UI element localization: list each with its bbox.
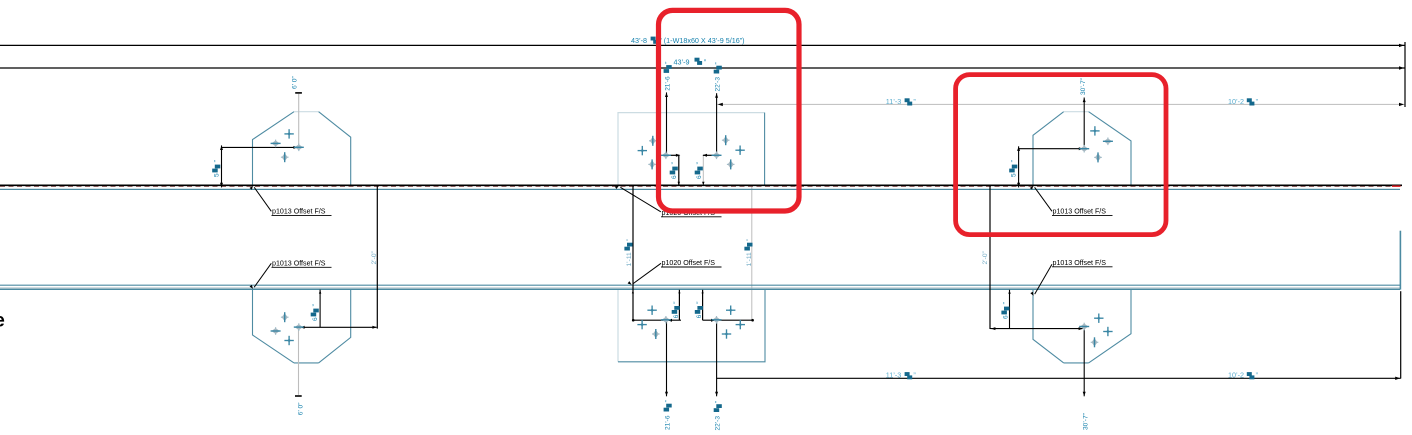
svg-text:43’-9: 43’-9 [674,57,690,66]
svg-text:p1013 Offset F/S: p1013 Offset F/S [1053,208,1107,216]
svg-text:11’-3: 11’-3 [886,371,901,380]
bolt group bottom-right plate [1079,323,1089,331]
lower member right end cap blue [1399,231,1401,290]
svg-text:6’ 0”: 6’ 0” [292,76,299,89]
leader p1013 bottom-left [254,263,271,287]
svg-text:21’-6: 21’-6 [665,415,672,430]
svg-text:p1013 Offset F/S: p1013 Offset F/S [1053,259,1107,267]
svg-text:1’-11: 1’-11 [746,252,753,267]
gray leader 6'-0 bottom-left [298,328,300,395]
svg-text:”: ” [213,160,220,162]
red markup rounded box middle [659,10,800,211]
dimension 6 5/8 bottom-left [319,290,321,328]
svg-text:5: 5 [213,173,220,177]
svg-text:22’-3: 22’-3 [715,77,722,92]
svg-text:”: ” [626,239,633,241]
leader p1020 bottom-middle [633,263,661,283]
plate p1013 top-right hexagonal outline [1033,112,1064,186]
vertical dim leader 21'-6 7/8 bottom [666,320,668,396]
svg-text:”: ” [696,302,703,304]
svg-text:30’-7”: 30’-7” [1083,413,1090,430]
second dimension line 43'-9 9/16 [0,67,1405,69]
gray extension top-middle right bracket [702,155,704,185]
top dimension line 43'-8 15/16 [0,44,1405,46]
svg-text:6: 6 [673,314,680,318]
svg-text:”: ” [1010,160,1017,162]
svg-text:”: ” [665,400,672,402]
svg-text:5: 5 [1010,173,1017,177]
svg-text:p1020 Offset F/S: p1020 Offset F/S [662,259,716,267]
vertical member line x=633 [632,186,634,321]
bracket 6 5/8 top-middle-right [703,154,716,156]
svg-text:”: ” [671,162,678,164]
svg-text:21’-6: 21’-6 [665,76,672,91]
tick at top of 6'-0 leader [295,92,302,94]
svg-text:6: 6 [312,317,319,321]
dimension 5 7/8 top-left [221,145,223,187]
bolt group bottom-middle-left [637,320,646,329]
svg-text:”: ” [312,304,319,306]
vertical dim leader 30'-7 bottom-right [1083,329,1085,396]
bracket 6 5/8 bottom-right [1009,290,1011,329]
svg-text:43’-8: 43’-8 [631,36,647,45]
bracket 6 5/8 bottom-middle-left [678,290,680,320]
lower member gray mid line [0,287,1400,289]
vertical member line x=990 [989,186,991,329]
bolt group top-middle-left [638,146,647,155]
gray dimension line top 11'-3 5/8 + 10'-2 5/8 [717,103,1406,105]
lower member top edge blue line 2 [0,288,1400,290]
vertical dim leader 30'-7 top-right [1083,98,1085,149]
red markup rounded box right [956,75,1166,235]
tick at bottom of 6'-0 leader [295,395,302,397]
bolt group top-left plate [284,129,293,138]
plate p1020 top-middle rectangular outline [618,113,765,185]
svg-text:” (1-W18x60 X 43’-9 5/16”): ” (1-W18x60 X 43’-9 5/16”) [659,36,744,45]
svg-text:6: 6 [696,175,703,179]
bracket 6 5/8 bottom-middle-right [702,290,704,320]
vertical dim leader 21'-6 7/8 [666,92,668,154]
plate p1020 bottom-middle rectangular outline [617,290,619,362]
bolt group top-right plate [1090,126,1099,135]
svg-text:6: 6 [1003,315,1010,319]
vertical dim leader 22'-3 7/8 [716,93,718,155]
beam bottom flange black line [0,184,1402,186]
extension vertical bottom-right x=1400 [1400,291,1402,378]
bolt group bottom-middle-right [712,316,722,324]
plate p1013 bottom-left hexagonal outline [253,289,295,363]
svg-text:e: e [0,311,5,332]
leader p1020 top-middle [620,187,660,212]
dimension 5 7/8 top-right [1018,146,1020,187]
bracket 6 5/8 top-middle-left [667,154,680,156]
svg-text:”: ” [696,162,703,164]
gray extension line x=752 [751,186,753,320]
plate p1013 top-left hexagonal outline [253,112,295,186]
beam bottom flange blue line [0,188,1400,190]
vertical dim leader 22'-3 7/8 bottom [716,320,718,396]
lower member top edge blue line 1 [0,284,1400,286]
svg-text:2’-0”: 2’-0” [982,251,989,264]
bottom dimension line 11'-3 5/8 + 10'-2 5/8 [717,377,1401,379]
svg-text:”: ” [665,62,672,64]
bolt group bottom-left plate [284,336,293,345]
gray leader 6'-0 top-left [298,94,300,147]
svg-text:6: 6 [671,175,678,179]
svg-text:”: ” [1003,302,1010,304]
plate p1013 bottom-right hexagonal outline [1033,289,1064,363]
svg-text:10’-2: 10’-2 [1228,97,1244,106]
svg-text:”: ” [715,401,722,403]
svg-text:6’ 0”: 6’ 0” [297,403,304,416]
leader p1013 bottom-right [1035,264,1052,294]
svg-text:6: 6 [696,314,703,318]
svg-text:1’-11: 1’-11 [626,252,633,267]
bolt group top-middle-right [712,152,722,160]
svg-text:”: ” [673,302,680,304]
svg-text:p1013 Offset F/S: p1013 Offset F/S [272,208,326,216]
leader p1013 top-right [1035,187,1052,211]
svg-text:2’-0”: 2’-0” [371,251,378,264]
red dash at right end [1392,185,1401,187]
svg-text:”: ” [746,239,753,241]
right extension vertical x=1405 [1404,42,1406,107]
svg-text:11’-3: 11’-3 [886,97,901,106]
svg-text:30’-7”: 30’-7” [1080,78,1087,95]
svg-text:”: ” [715,62,722,64]
vertical member line x=377 [376,186,378,329]
svg-text:10’-2: 10’-2 [1228,371,1244,380]
leader p1013 top-left [254,187,271,211]
svg-text:p1013 Offset F/S: p1013 Offset F/S [272,259,326,267]
dashed maroon reference line [0,186,1392,188]
svg-text:22’-3: 22’-3 [715,416,722,431]
